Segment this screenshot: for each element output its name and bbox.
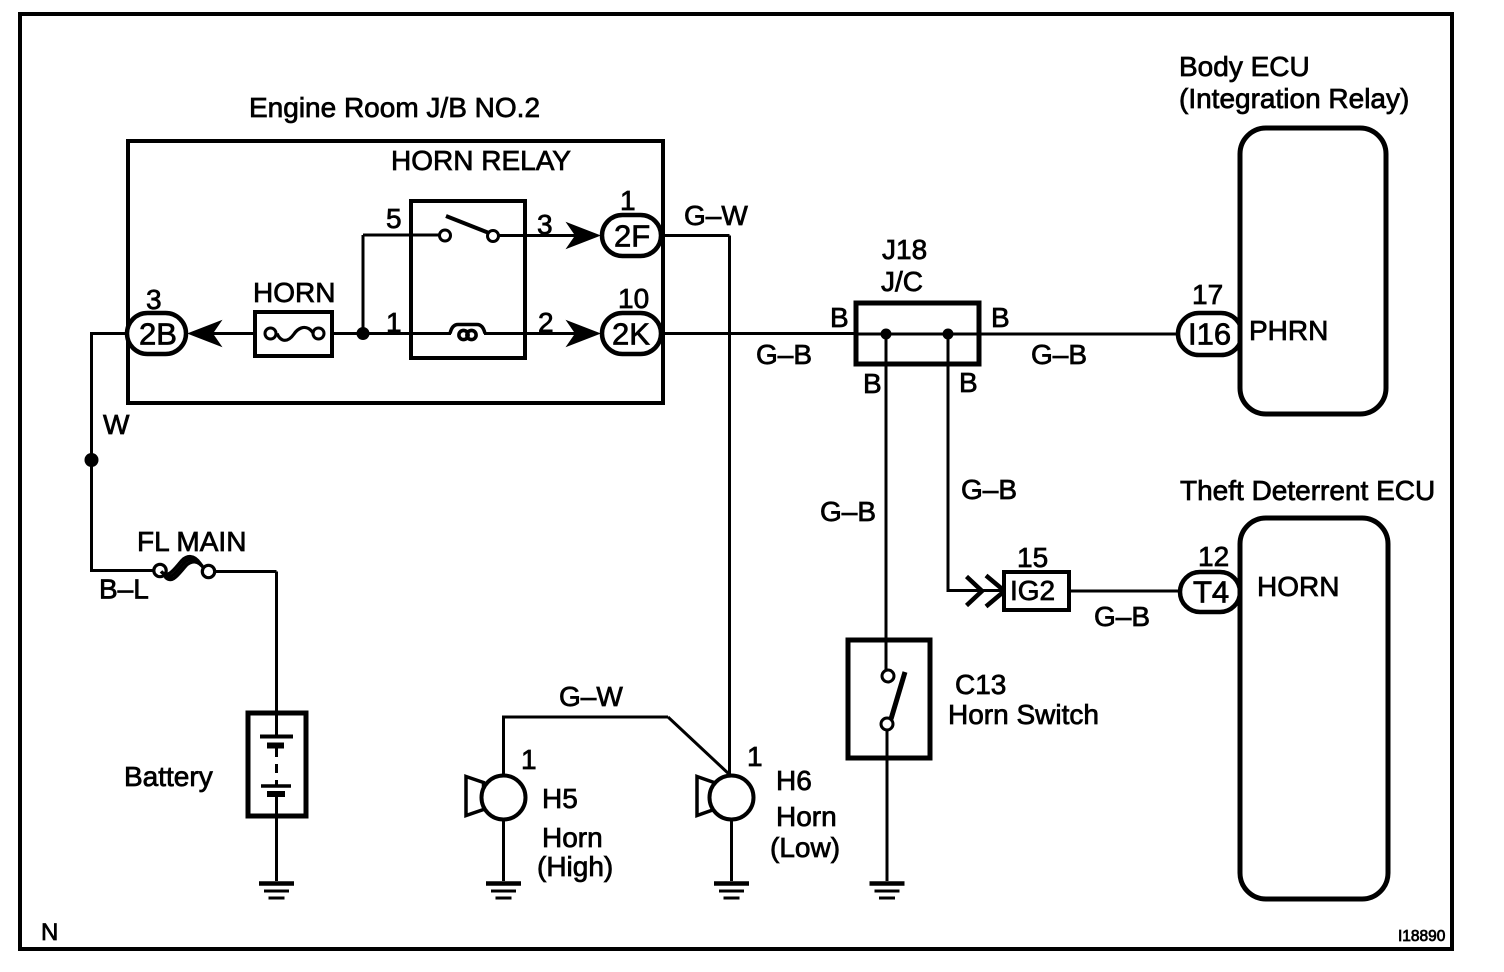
relay K1 HORN RELAY box [391, 145, 571, 358]
svg-text:Horn: Horn [542, 822, 603, 853]
svg-text:Battery: Battery [124, 761, 213, 792]
svg-text:B–L: B–L [99, 574, 149, 605]
ground under H6 [714, 884, 749, 899]
junction node (363,333.5) [357, 327, 370, 340]
Body ECU (Integration Relay) block [1179, 51, 1409, 414]
svg-text:N: N [41, 919, 58, 946]
svg-text:10: 10 [618, 283, 649, 314]
svg-text:Horn Switch: Horn Switch [948, 699, 1099, 730]
svg-text:C13: C13 [955, 669, 1006, 700]
svg-text:HORN: HORN [253, 277, 335, 308]
wire vertical G-W drop to horn H6 [728, 236, 731, 777]
svg-text:I16: I16 [1188, 317, 1231, 352]
wire 2K to junction connector J18 [661, 332, 856, 335]
svg-text:IG2: IG2 [1010, 575, 1055, 606]
connector T4 pin 12 [1180, 541, 1240, 612]
wire node W: 2B left to border column [92, 332, 129, 335]
wire H6 to ground [730, 820, 733, 882]
svg-text:3: 3 [537, 209, 553, 240]
relay coil [450, 325, 485, 340]
wire battery to ground [275, 795, 278, 881]
svg-text:W: W [103, 409, 130, 440]
horn switch C13 [848, 640, 1099, 758]
wire from J/C left node down to horn switch [885, 334, 888, 671]
relay switch contacts [440, 216, 499, 242]
svg-text:(Integration Relay): (Integration Relay) [1179, 83, 1409, 114]
svg-text:J/C: J/C [881, 266, 923, 297]
wire 2B to HORN fuse [208, 332, 256, 335]
wire coil bus pin1 to coil [332, 332, 451, 335]
svg-text:1: 1 [521, 744, 537, 775]
svg-text:(Low): (Low) [770, 832, 840, 863]
svg-text:1: 1 [386, 307, 402, 338]
svg-text:Theft Deterrent ECU: Theft Deterrent ECU [1180, 475, 1435, 506]
wire horn switch to ground [886, 730, 889, 881]
wire through J/C [856, 333, 1179, 336]
svg-text:B: B [959, 367, 978, 398]
wire H5 riser [502, 717, 505, 776]
connector 2K pin 10 [602, 283, 661, 354]
fuse HORN [253, 277, 335, 356]
fusible link FL MAIN [92, 526, 247, 605]
svg-text:15: 15 [1017, 542, 1048, 573]
wire G-W horizontal to H6 [502, 716, 668, 719]
junction node right in J/C [943, 329, 954, 340]
connector 2F pin 1 [602, 185, 661, 256]
svg-text:T4: T4 [1193, 575, 1229, 610]
svg-text:H6: H6 [776, 765, 812, 796]
arrow into 2B [187, 320, 223, 347]
svg-text:(High): (High) [537, 851, 613, 882]
svg-text:FL MAIN: FL MAIN [137, 526, 246, 557]
svg-text:Body ECU: Body ECU [1179, 51, 1310, 82]
svg-text:17: 17 [1192, 279, 1223, 310]
svg-text:Engine Room J/B NO.2: Engine Room J/B NO.2 [249, 92, 540, 123]
arrow into 2F [566, 222, 602, 249]
wire relay pin 3 to connector 2F [499, 234, 581, 237]
svg-text:B: B [991, 302, 1010, 333]
svg-text:PHRN: PHRN [1249, 315, 1328, 346]
wire vertical from pin5 branch down to coil bus [362, 235, 365, 334]
svg-text:2B: 2B [139, 317, 177, 352]
battery [124, 713, 306, 816]
wire diagonal into H6 [668, 717, 730, 775]
svg-text:J18: J18 [882, 234, 927, 265]
svg-text:G–W: G–W [559, 681, 623, 712]
svg-text:G–W: G–W [684, 200, 748, 231]
svg-text:G–B: G–B [820, 496, 876, 527]
connector 2B pin 3 [127, 284, 186, 354]
horn H6 (Low) [697, 741, 840, 863]
svg-text:G–B: G–B [1094, 601, 1150, 632]
svg-text:Horn: Horn [776, 801, 837, 832]
Theft Deterrent ECU block [1180, 475, 1435, 899]
svg-text:HORN RELAY: HORN RELAY [391, 145, 571, 176]
ground under H5 [486, 884, 521, 899]
wire horizontal to IG2 [948, 589, 1005, 592]
wire from J/C right node down [947, 334, 950, 592]
svg-text:2K: 2K [612, 317, 650, 352]
svg-text:12: 12 [1198, 541, 1229, 572]
wire from node at (363,235) to relay pin 5 [363, 234, 440, 237]
ground under battery [259, 884, 294, 899]
wire relay pin 2 to connector 2K [484, 332, 580, 335]
svg-text:H5: H5 [542, 783, 578, 814]
arrow into 2K [566, 320, 602, 347]
svg-text:2F: 2F [614, 219, 650, 254]
junction on W wire [85, 453, 99, 467]
wire W vertical down to FL MAIN [90, 332, 93, 572]
connector IG2 pin 15 [1004, 542, 1069, 610]
wire down to battery [275, 572, 278, 737]
junction connector J18 J/C [856, 234, 979, 364]
svg-text:1: 1 [620, 185, 636, 216]
wire 2F to drop corner [661, 234, 730, 237]
svg-text:3: 3 [146, 284, 162, 315]
svg-text:G–B: G–B [961, 474, 1017, 505]
wire FL MAIN to battery drop [214, 570, 277, 573]
wire IG2 to T4 [1069, 590, 1181, 593]
svg-text:B: B [863, 368, 882, 399]
svg-text:HORN: HORN [1257, 571, 1339, 602]
svg-text:G–B: G–B [756, 339, 812, 370]
double chevron into IG2 [967, 576, 1005, 607]
junction node left in J/C [881, 329, 892, 340]
svg-text:I18890: I18890 [1398, 928, 1446, 945]
svg-text:G–B: G–B [1031, 339, 1087, 370]
junction block Engine Room J/B NO.2 [128, 92, 663, 403]
ground under horn switch [870, 884, 905, 899]
svg-text:5: 5 [386, 203, 402, 234]
horn H5 (High) [466, 744, 613, 882]
wire H5 to ground [502, 820, 505, 882]
svg-text:1: 1 [747, 741, 763, 772]
svg-text:B: B [830, 302, 849, 333]
svg-text:2: 2 [538, 307, 554, 338]
connector I16 pin 17 [1178, 279, 1242, 355]
